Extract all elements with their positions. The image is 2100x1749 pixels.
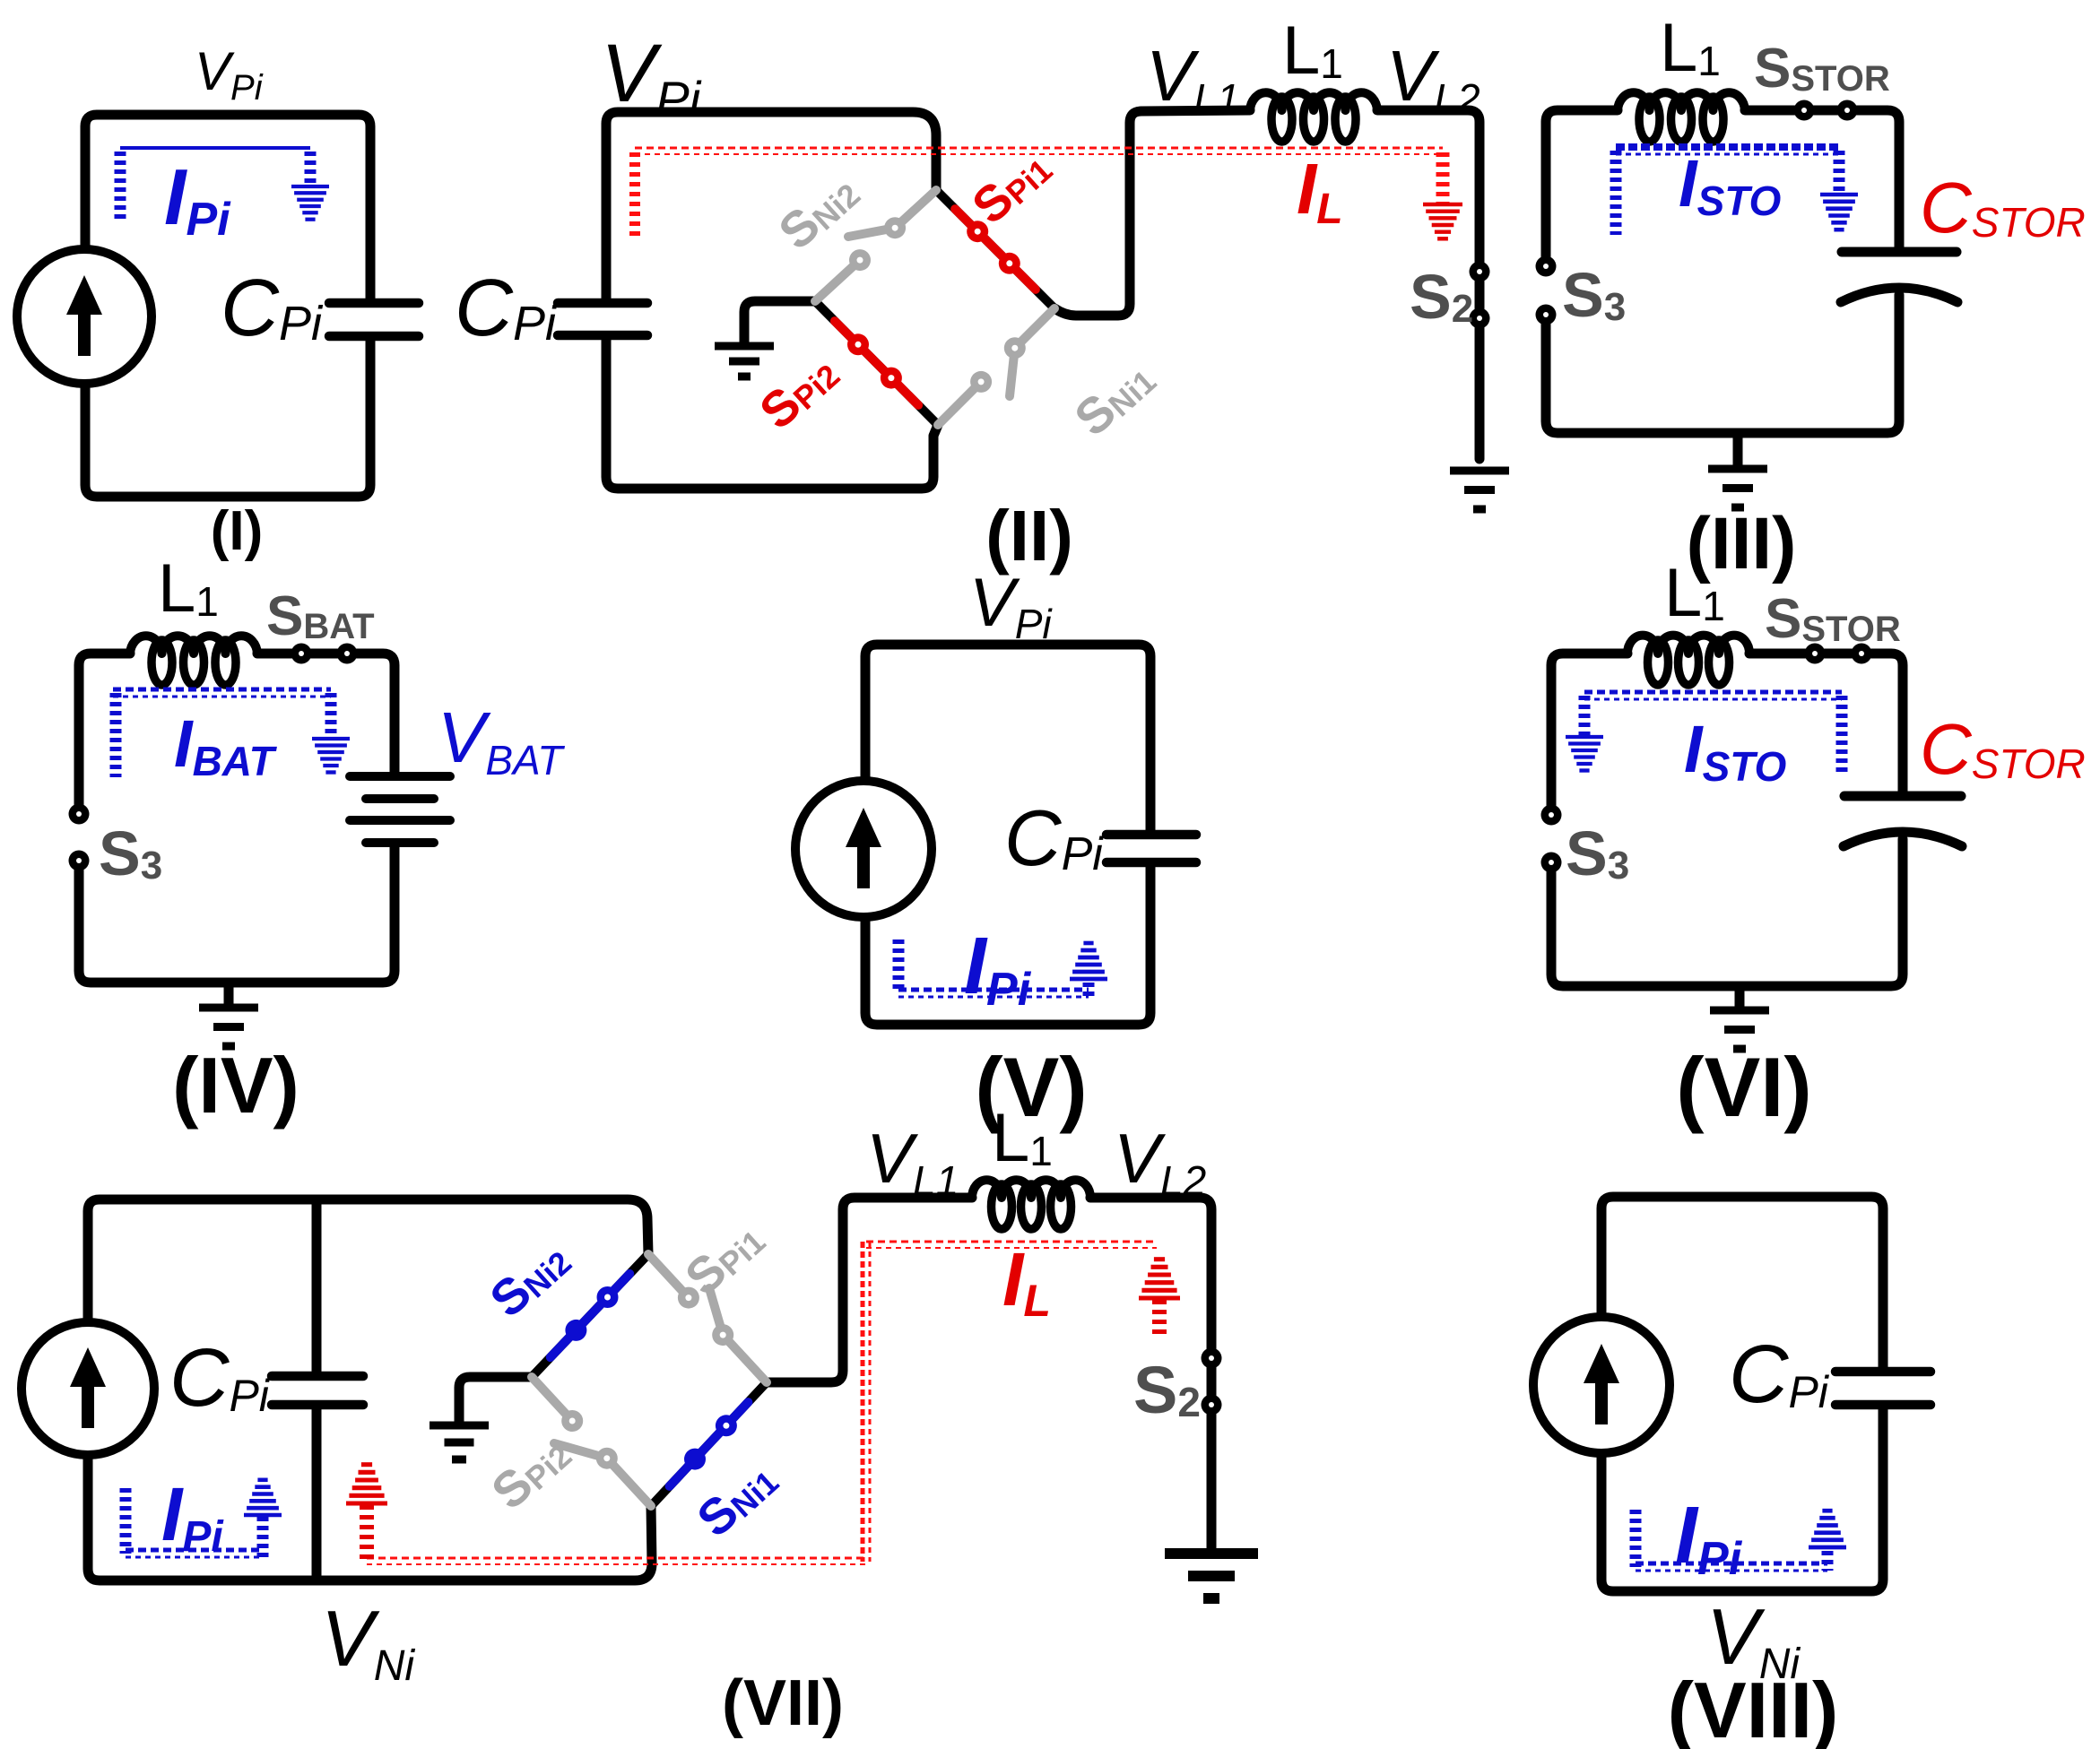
svg-text:(II): (II)	[985, 496, 1073, 576]
svg-text:(VII): (VII)	[722, 1667, 844, 1739]
svg-text:(I): (I)	[211, 500, 264, 562]
svg-text:(IV): (IV)	[172, 1041, 299, 1130]
svg-text:(III): (III)	[1687, 503, 1797, 584]
svg-text:(VI): (VI)	[1676, 1040, 1811, 1134]
svg-text:(VIII): (VIII)	[1668, 1666, 1839, 1749]
